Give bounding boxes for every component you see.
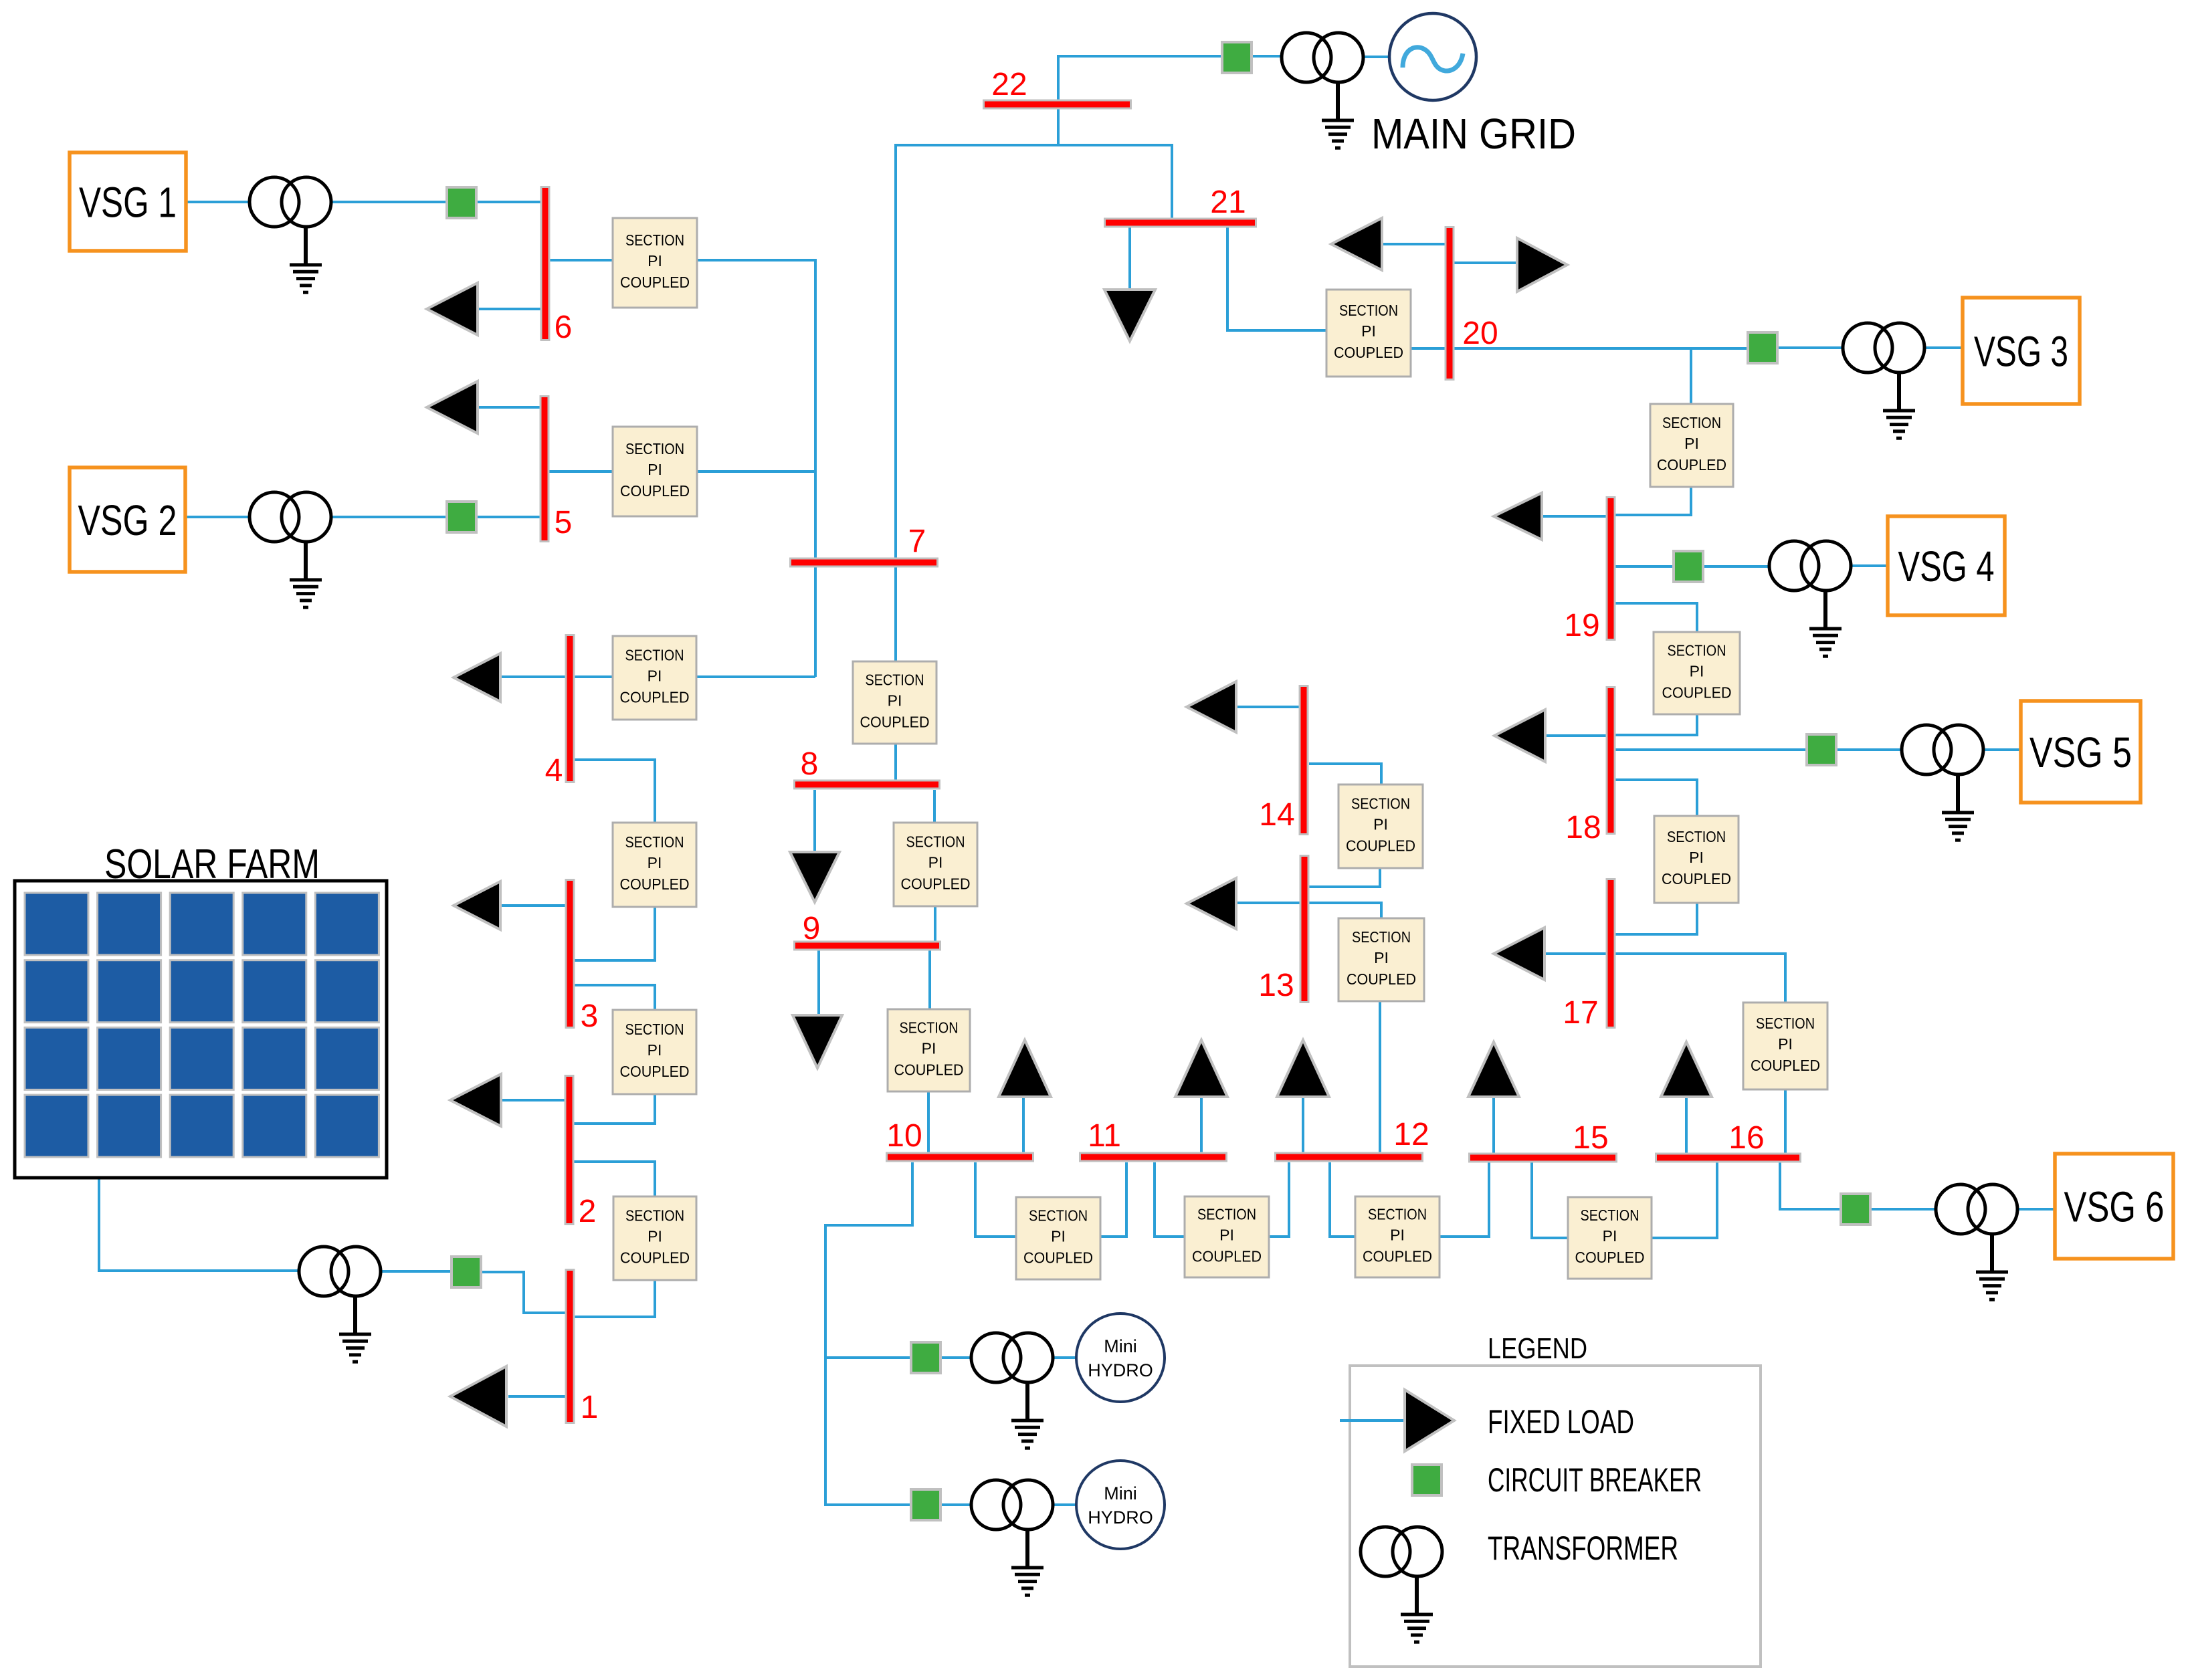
svg-text:PI: PI [648, 1041, 662, 1059]
svg-text:HYDRO: HYDRO [1088, 1360, 1153, 1380]
svg-text:22: 22 [991, 67, 1027, 102]
svg-text:COUPLED: COUPLED [1334, 344, 1403, 361]
svg-text:1: 1 [581, 1390, 599, 1425]
svg-text:SECTION: SECTION [1667, 828, 1726, 845]
svg-text:HYDRO: HYDRO [1088, 1507, 1153, 1528]
svg-text:LEGEND: LEGEND [1488, 1332, 1587, 1365]
svg-text:8: 8 [801, 746, 819, 782]
svg-text:SECTION: SECTION [625, 440, 684, 457]
svg-text:MAIN GRID: MAIN GRID [1371, 110, 1576, 158]
svg-text:PI: PI [648, 854, 662, 871]
svg-text:PI: PI [888, 692, 902, 710]
svg-text:COUPLED: COUPLED [1657, 456, 1726, 474]
svg-text:FIXED LOAD: FIXED LOAD [1488, 1403, 1634, 1441]
svg-text:VSG 1: VSG 1 [79, 179, 177, 227]
svg-text:COUPLED: COUPLED [1347, 970, 1416, 988]
svg-text:VSG 6: VSG 6 [2064, 1183, 2165, 1231]
svg-text:7: 7 [908, 524, 926, 559]
svg-text:VSG 2: VSG 2 [78, 496, 177, 544]
svg-text:SECTION: SECTION [1581, 1206, 1639, 1224]
svg-text:SECTION: SECTION [1662, 414, 1721, 431]
svg-text:SECTION: SECTION [1756, 1015, 1815, 1032]
svg-text:VSG 4: VSG 4 [1898, 542, 1995, 591]
svg-text:SECTION: SECTION [625, 1021, 684, 1038]
svg-text:PI: PI [648, 461, 662, 478]
svg-text:Mini: Mini [1104, 1483, 1137, 1503]
svg-text:12: 12 [1393, 1117, 1429, 1152]
svg-text:COUPLED: COUPLED [1346, 837, 1415, 855]
svg-text:PI: PI [1778, 1035, 1793, 1053]
svg-text:PI: PI [922, 1040, 936, 1057]
svg-text:13: 13 [1258, 968, 1294, 1003]
svg-text:PI: PI [1373, 816, 1388, 833]
svg-text:SECTION: SECTION [625, 833, 684, 851]
svg-text:SECTION: SECTION [1339, 302, 1398, 319]
svg-text:6: 6 [555, 310, 573, 345]
svg-text:COUPLED: COUPLED [1023, 1249, 1093, 1267]
svg-text:9: 9 [803, 911, 821, 946]
svg-text:2: 2 [579, 1194, 597, 1229]
svg-text:SECTION: SECTION [1029, 1207, 1088, 1225]
svg-text:SECTION: SECTION [625, 647, 684, 664]
svg-text:PI: PI [1390, 1227, 1405, 1244]
svg-text:SECTION: SECTION [625, 231, 684, 249]
svg-text:COUPLED: COUPLED [620, 1063, 690, 1080]
svg-text:COUPLED: COUPLED [620, 1249, 690, 1267]
svg-text:COUPLED: COUPLED [901, 875, 971, 893]
svg-text:COUPLED: COUPLED [1192, 1248, 1262, 1265]
svg-text:SECTION: SECTION [900, 1019, 959, 1037]
svg-text:21: 21 [1210, 185, 1246, 220]
svg-text:PI: PI [1689, 849, 1704, 866]
svg-text:17: 17 [1563, 995, 1598, 1031]
svg-text:3: 3 [581, 999, 599, 1034]
svg-text:PI: PI [1219, 1227, 1234, 1244]
svg-text:PI: PI [1684, 435, 1699, 452]
svg-text:COUPLED: COUPLED [1363, 1248, 1432, 1265]
svg-text:20: 20 [1462, 316, 1498, 351]
svg-text:COUPLED: COUPLED [1662, 870, 1731, 887]
svg-text:11: 11 [1088, 1118, 1121, 1154]
svg-text:PI: PI [648, 667, 662, 685]
svg-text:SECTION: SECTION [866, 671, 924, 689]
svg-text:COUPLED: COUPLED [620, 482, 690, 500]
svg-text:SECTION: SECTION [1352, 928, 1411, 946]
svg-text:COUPLED: COUPLED [620, 274, 690, 291]
svg-text:COUPLED: COUPLED [1751, 1057, 1820, 1074]
svg-text:16: 16 [1728, 1120, 1764, 1156]
svg-text:VSG 5: VSG 5 [2029, 728, 2132, 776]
svg-text:COUPLED: COUPLED [860, 714, 930, 731]
svg-text:PI: PI [1374, 949, 1389, 966]
svg-text:14: 14 [1259, 797, 1294, 833]
svg-text:5: 5 [555, 505, 573, 540]
svg-text:SECTION: SECTION [906, 833, 965, 851]
svg-text:PI: PI [1051, 1228, 1066, 1245]
svg-text:COUPLED: COUPLED [894, 1061, 964, 1079]
svg-text:PI: PI [1690, 663, 1704, 680]
svg-text:VSG 3: VSG 3 [1974, 328, 2068, 376]
svg-text:SECTION: SECTION [1368, 1206, 1427, 1223]
svg-text:COUPLED: COUPLED [1662, 684, 1732, 702]
svg-text:PI: PI [928, 854, 943, 871]
svg-text:15: 15 [1573, 1120, 1608, 1156]
svg-text:19: 19 [1564, 608, 1599, 643]
svg-text:SECTION: SECTION [625, 1207, 684, 1225]
svg-text:SECTION: SECTION [1197, 1206, 1256, 1223]
svg-text:CIRCUIT BREAKER: CIRCUIT BREAKER [1488, 1461, 1702, 1499]
svg-text:PI: PI [648, 252, 662, 270]
svg-text:SECTION: SECTION [1351, 795, 1410, 813]
svg-text:PI: PI [648, 1228, 662, 1245]
svg-text:SECTION: SECTION [1668, 642, 1726, 659]
svg-text:10: 10 [886, 1118, 922, 1154]
svg-text:COUPLED: COUPLED [620, 875, 690, 893]
svg-text:PI: PI [1361, 322, 1376, 340]
svg-text:Mini: Mini [1104, 1336, 1137, 1356]
svg-text:TRANSFORMER: TRANSFORMER [1488, 1530, 1678, 1567]
svg-text:COUPLED: COUPLED [1575, 1249, 1645, 1266]
svg-text:4: 4 [545, 753, 563, 789]
svg-text:COUPLED: COUPLED [620, 689, 690, 706]
svg-text:18: 18 [1565, 810, 1601, 845]
svg-text:PI: PI [1603, 1227, 1617, 1245]
